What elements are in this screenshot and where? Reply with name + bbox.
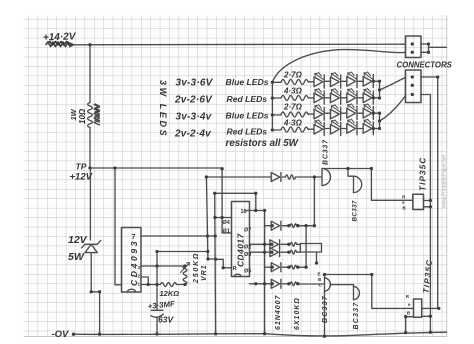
svg-text:Ø4: Ø4: [223, 220, 231, 226]
svg-text:5W: 5W: [68, 251, 85, 263]
wire rowD to BC337 Q3 base: [297, 283, 325, 285]
pot VR1 250K: [183, 266, 187, 285]
scribble next to 10ohm: [94, 104, 100, 125]
wire v2 long to rail: [214, 193, 217, 334]
svg-text:CD4093: CD4093: [129, 239, 139, 286]
diode D3 1N4007: [270, 240, 279, 249]
zener diode 12V 5W: [82, 241, 101, 248]
wire bus rowA-rowC: [305, 226, 307, 268]
svg-text:12V: 12V: [68, 234, 88, 246]
transistor Q1 BC337: [321, 169, 323, 186]
LED row2 D4: [363, 93, 372, 103]
svg-text:63V: 63V: [158, 315, 174, 325]
wire 4017 left pin stub y=217.5: [215, 217, 232, 219]
wire zener to ground jog: [91, 292, 99, 334]
wire vertical junction v1: [206, 177, 208, 259]
node bracket rows B: [300, 244, 321, 253]
svg-text:+12V: +12V: [70, 172, 93, 183]
LED row1 D1: [314, 77, 323, 87]
LED row1 D3: [347, 77, 356, 87]
wire LED row 2: [272, 97, 281, 99]
LED row3 D3: [347, 108, 356, 118]
wire 0V ground rail: [74, 332, 447, 336]
wire TP +12V rail: [90, 167, 222, 169]
svg-text:BC337: BC337: [353, 302, 360, 330]
wire pin16 line: [246, 210, 265, 212]
svg-text:3v-3·6V: 3v-3·6V: [176, 78, 214, 89]
wire resistor to TP node: [89, 128, 91, 169]
svg-text:Ø0: Ø0: [244, 252, 251, 258]
svg-text:TIP35C: TIP35C: [419, 157, 428, 191]
svg-text:3W LEDS: 3W LEDS: [158, 80, 168, 138]
svg-text:R: R: [233, 266, 237, 272]
wire rowA feed: [265, 225, 272, 227]
diode D1 1N4007: [271, 173, 280, 182]
svg-text:VR1: VR1: [201, 264, 208, 281]
LED row2 D3: [347, 93, 356, 103]
LED row3 D4: [363, 108, 372, 118]
wire LED right bus lower: [379, 113, 381, 128]
svg-text:Ø5: Ø5: [244, 269, 251, 275]
wire 4093 stub y=277: [141, 277, 148, 285]
wire rowB2 feed: [250, 251, 270, 253]
LED row2 D2: [331, 93, 340, 103]
LED row3 D2: [331, 109, 340, 119]
wire supply drop to 10ohm resistor: [89, 45, 91, 103]
wire 4093 y=266 to VR1: [141, 265, 185, 267]
op IC CD4093 U2: [122, 228, 142, 293]
svg-text:resistors all 5W: resistors all 5W: [226, 138, 299, 149]
svg-text:CONNECTORS: CONNECTORS: [397, 61, 453, 70]
svg-text:6X10KΩ: 6X10KΩ: [294, 297, 301, 330]
wire LED row 1: [272, 81, 281, 83]
wire +14.2V rail to connector: [73, 43, 406, 46]
LED row1 D4: [363, 77, 372, 87]
wire 12K row: [141, 284, 161, 286]
wire long v to rail x=264.6: [264, 211, 266, 334]
wire bus row0-rowA: [313, 177, 315, 226]
LED row4 D1: [314, 125, 323, 135]
capacitor C 3.3MF 63V: [151, 309, 163, 311]
transistor Q5 TIP35C: [413, 194, 424, 209]
wire curve LED bus to top connector: [272, 50, 405, 82]
LED row4 D4: [363, 124, 372, 134]
wire diode row0 feed: [206, 176, 271, 178]
diode D2 1N4007: [271, 221, 280, 230]
wire +12V drop to CD4093: [115, 168, 122, 285]
LED row2 D1: [314, 93, 323, 103]
svg-text:Blue LEDs: Blue LEDs: [226, 111, 269, 121]
LED row1 D2: [331, 77, 340, 87]
svg-text:2·7Ω: 2·7Ω: [283, 103, 303, 112]
svg-text:61N4007: 61N4007: [275, 294, 282, 330]
wire v1 to v2 link: [208, 258, 216, 260]
wire pin7 line: [141, 235, 215, 237]
svg-text:Ø1: Ø1: [223, 229, 230, 235]
svg-text:Blue LEDs: Blue LEDs: [226, 77, 269, 87]
svg-text:E: E: [318, 272, 321, 277]
transistor Q3 BC337: [324, 278, 326, 292]
wire LED row 3: [272, 114, 281, 116]
transistor Q2 BC337: [348, 169, 354, 177]
wire curve upper LED bus to connector J2: [380, 77, 406, 90]
svg-text:2v-2·6V: 2v-2·6V: [174, 95, 213, 106]
transistor Q6 TIP35C: [414, 299, 422, 317]
svg-text:4·3Ω: 4·3Ω: [283, 119, 303, 128]
wire Q1 collector: [322, 168, 371, 170]
wire Q3 collector to Q6 base: [325, 275, 414, 309]
svg-text:4·3Ω: 4·3Ω: [283, 87, 303, 96]
svg-text:Ø2: Ø2: [244, 245, 251, 251]
svg-text:12KΩ: 12KΩ: [160, 289, 180, 298]
svg-text:2·7Ω: 2·7Ω: [283, 71, 303, 80]
svg-text:2v-2·4v: 2v-2·4v: [174, 129, 212, 140]
wire v down to pin16 line: [255, 193, 257, 210]
svg-text:250KΩ: 250KΩ: [193, 252, 200, 284]
svg-text:16: 16: [241, 209, 247, 215]
LED row3 D1: [314, 109, 323, 119]
connector J2: [406, 70, 422, 103]
svg-text:-OV: -OV: [52, 329, 70, 340]
node +14.2V supply label scribble: [46, 42, 71, 47]
svg-text:7: 7: [132, 234, 136, 241]
svg-text:3v-3·4v: 3v-3·4v: [176, 112, 213, 123]
diode D6 1N4007: [271, 279, 280, 288]
svg-text:BC337: BC337: [323, 139, 330, 165]
svg-text:1W: 1W: [69, 108, 78, 120]
svg-text:BC337: BC337: [352, 200, 359, 221]
wire Q3 emitter to rail: [324, 291, 326, 336]
wire rowB feed: [250, 243, 270, 245]
wire 4093 out y=251.5: [157, 251, 208, 253]
wire rowC feed: [265, 266, 272, 268]
wire row0 to BC337 Q1: [297, 176, 323, 178]
wire rowD feed: [250, 283, 272, 285]
diode D5 1N4007: [271, 263, 280, 272]
transistor Q4 BC337: [331, 285, 353, 287]
wire LED right bus upper: [379, 81, 381, 98]
wire h y=193: [215, 192, 256, 194]
LED row4 D2: [331, 125, 340, 135]
resistor R 10ohm 1W: [88, 103, 93, 128]
svg-text:TP: TP: [76, 162, 87, 172]
wire LED left bus: [271, 82, 273, 130]
wire curve lower LED bus to connector J2: [380, 95, 406, 121]
LED row4 D3: [347, 124, 356, 134]
resistor 12K: [161, 283, 177, 287]
svg-text:10Ω: 10Ω: [78, 108, 87, 124]
svg-text:www.PrintablePaper.net: www.PrintablePaper.net: [442, 154, 448, 208]
diode D4 1N4007: [270, 248, 279, 257]
wire link to 4017 pin: [216, 259, 232, 268]
svg-text:+14·2V: +14·2V: [43, 31, 77, 43]
wire TP drop to 4017: [222, 169, 231, 233]
connector J1: [406, 36, 422, 58]
wire LED row 4: [272, 129, 281, 131]
wire J2 pin3 to Q5 collector and rail: [429, 95, 431, 333]
wire cap branch: [156, 252, 158, 311]
svg-text:Ø7: Ø7: [244, 228, 251, 234]
svg-text:BC337: BC337: [322, 295, 329, 323]
wire J2 pin1 to Q6: [437, 77, 439, 308]
svg-text:Red LEDs: Red LEDs: [227, 94, 268, 104]
op IC CD4017 U1: [232, 202, 250, 277]
wire zener branch down: [89, 168, 91, 240]
svg-text:Red LEDs: Red LEDs: [227, 127, 268, 137]
wire to TIP35C Q5 base: [371, 169, 412, 201]
